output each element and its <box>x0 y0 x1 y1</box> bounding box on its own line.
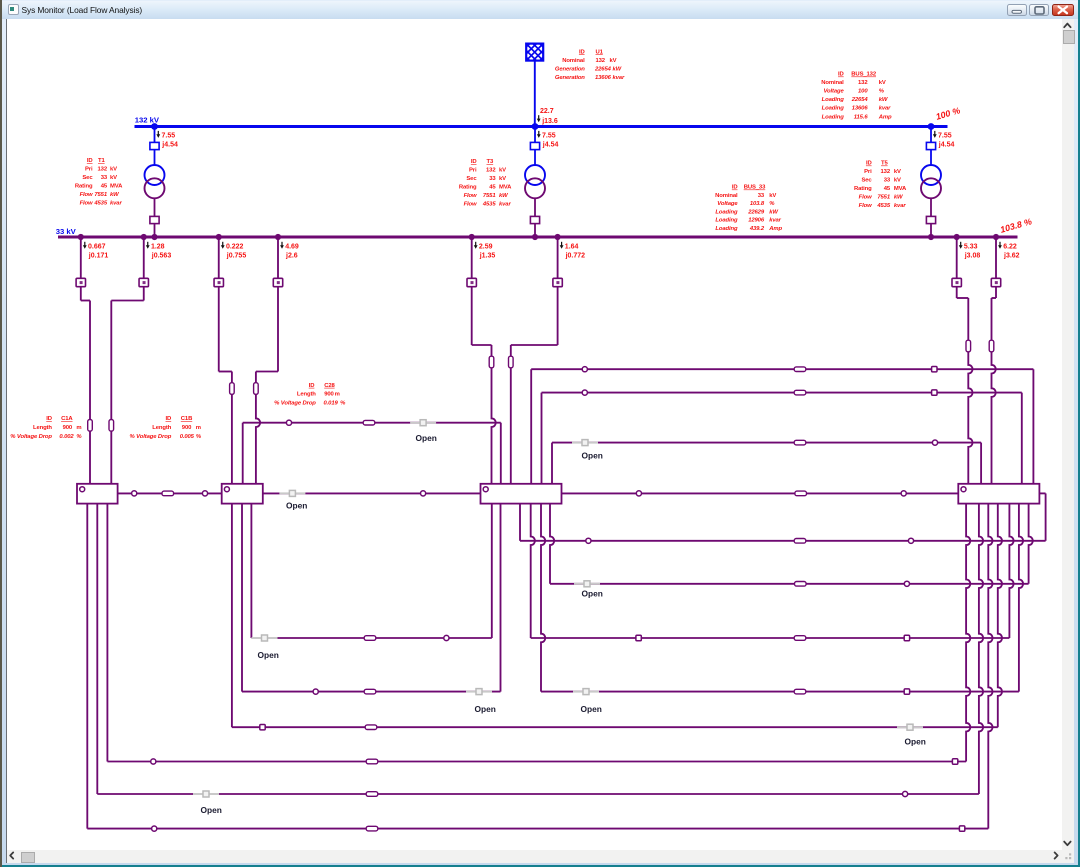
svg-text:Length: Length <box>152 425 171 431</box>
svg-text:m: m <box>76 425 81 431</box>
value label C1A <box>10 416 82 440</box>
svg-text:kW: kW <box>879 97 888 103</box>
cable feeder F8 <box>989 298 995 484</box>
svg-text:Length: Length <box>297 392 316 398</box>
transformer T3 (two-winding) <box>525 165 545 198</box>
node dot BUS_33 at T1 <box>151 234 157 240</box>
flow label feeder F5 <box>474 242 496 260</box>
svg-text:Generation: Generation <box>555 66 585 72</box>
svg-text:BUS_33: BUS_33 <box>744 185 766 191</box>
feeder F4 breaker <box>273 237 282 287</box>
svg-text:4535: 4535 <box>93 201 107 207</box>
cable feeder F6 <box>509 345 514 484</box>
svg-text:Sec: Sec <box>466 176 477 182</box>
svg-text:13606: 13606 <box>595 75 612 81</box>
svg-text:900: 900 <box>63 425 73 431</box>
svg-text:Rating: Rating <box>854 186 872 192</box>
flow label T5 (7.55, j4.54) <box>933 131 955 149</box>
svg-text:kV: kV <box>499 176 506 182</box>
svg-text:Amp: Amp <box>768 226 782 232</box>
open label row D left <box>475 704 496 714</box>
svg-text:kV: kV <box>110 175 117 181</box>
svg-text:Flow: Flow <box>80 192 93 198</box>
value label C28 <box>274 383 346 407</box>
node dot BUS_33 at T3 <box>532 234 538 240</box>
flow label feeder F3 <box>221 242 246 260</box>
busbar substation B <box>222 484 263 504</box>
svg-text:j4.54: j4.54 <box>542 142 559 149</box>
node dot BUS_33 feeder F4 <box>275 234 281 240</box>
svg-text:C1A: C1A <box>61 416 73 422</box>
flow label T3 (7.55, j4.54) <box>537 131 559 149</box>
cable ring H3 (C to D top) with open switch <box>552 440 981 484</box>
svg-text:Nominal: Nominal <box>821 80 844 86</box>
bus BUS_33 (33 kV) <box>58 236 1018 239</box>
wire feeder F3 upper <box>219 287 232 372</box>
open label row E <box>905 737 926 747</box>
svg-text:kvar: kvar <box>499 202 511 208</box>
node dot BUS_33 feeder F7 <box>954 234 960 240</box>
svg-text:ID: ID <box>838 72 844 78</box>
transformer T3 LV breaker and lead <box>530 198 539 237</box>
svg-text:900: 900 <box>182 425 192 431</box>
svg-text:Pri: Pri <box>864 169 872 175</box>
svg-text:Voltage: Voltage <box>717 201 738 207</box>
label 132 kV <box>135 116 160 125</box>
value label T3 <box>459 159 512 208</box>
label 33 kV <box>56 227 77 236</box>
svg-text:Nominal: Nominal <box>562 58 585 64</box>
svg-text:132: 132 <box>881 169 891 175</box>
cable feeder F7 <box>966 298 973 484</box>
transformer T5 LV breaker and lead <box>926 198 935 237</box>
cable row C left (B bottom to C bottom) with open switch <box>251 504 491 641</box>
cable row F (A bottom to D bottom) <box>107 504 970 765</box>
svg-text:kvar: kvar <box>879 106 891 112</box>
svg-text:33 kV: 33 kV <box>56 227 77 236</box>
svg-text:Loading: Loading <box>715 226 738 232</box>
svg-text:Rating: Rating <box>75 184 93 190</box>
svg-text:j0.755: j0.755 <box>226 253 247 260</box>
node dot BUS_132 at U1/T3 <box>532 123 539 130</box>
svg-text:45: 45 <box>101 184 108 190</box>
value label T1 <box>75 158 123 207</box>
svg-text:Loading: Loading <box>822 114 845 120</box>
svg-text:0.005: 0.005 <box>180 434 195 440</box>
wire feeder F6 upper <box>511 287 558 345</box>
generator U1 (utility grid symbol) <box>486 24 584 81</box>
wire feeder F8 upper <box>992 287 997 298</box>
wire feeder F1 upper <box>81 287 90 301</box>
svg-text:C1B: C1B <box>181 416 192 422</box>
svg-text:132: 132 <box>596 58 606 64</box>
cable link B-C with open switch <box>263 490 481 496</box>
svg-text:kvar: kvar <box>613 75 625 81</box>
svg-text:kvar: kvar <box>110 201 122 207</box>
wire U1 to BUS_132 <box>534 61 536 127</box>
cable link C-D <box>562 491 959 496</box>
svg-text:kV: kV <box>879 80 886 86</box>
svg-text:% Voltage Drop: % Voltage Drop <box>130 434 172 440</box>
svg-text:7551: 7551 <box>483 193 496 199</box>
svg-text:22654: 22654 <box>851 97 869 103</box>
svg-text:33: 33 <box>101 175 108 181</box>
cable row E (B bottom to D bottom) with open switch <box>232 504 1002 731</box>
flow label feeder F2 <box>146 242 171 260</box>
svg-text:900: 900 <box>324 392 334 398</box>
wire feeder F4 upper <box>256 287 278 372</box>
svg-text:kvar: kvar <box>769 218 781 224</box>
cable feeder F4 <box>254 372 261 484</box>
feeder F7 breaker <box>952 237 961 287</box>
svg-text:132: 132 <box>98 167 108 173</box>
svg-text:j0.772: j0.772 <box>565 253 586 260</box>
svg-text:Sec: Sec <box>82 175 93 181</box>
flow label U1 (22.7, j13.6) <box>537 108 558 125</box>
cable row A (C bottom to D right loop) <box>520 493 1046 543</box>
bus BUS_132 (132 kV) <box>135 125 948 128</box>
node dot BUS_33 at T5 <box>928 234 934 240</box>
svg-text:4535: 4535 <box>876 203 890 209</box>
svg-text:j0.563: j0.563 <box>151 253 172 260</box>
node dot BUS_33 feeder F8 <box>993 234 999 240</box>
svg-text:Open: Open <box>201 805 222 815</box>
svg-text:kV: kV <box>894 169 901 175</box>
svg-text:% Voltage Drop: % Voltage Drop <box>10 434 52 440</box>
flow label feeder F7 <box>959 242 981 260</box>
open label H3 <box>582 451 603 461</box>
feeder F6 breaker <box>553 237 562 287</box>
node dot BUS_33 feeder F5 <box>469 234 475 240</box>
svg-text:Generation: Generation <box>555 75 585 81</box>
feeder F3 breaker <box>214 237 223 287</box>
svg-text:Loading: Loading <box>715 209 738 215</box>
svg-text:0.002: 0.002 <box>59 434 74 440</box>
svg-text:Loading: Loading <box>715 218 738 224</box>
svg-text:T3: T3 <box>487 159 494 165</box>
svg-text:j4.54: j4.54 <box>161 142 178 149</box>
svg-text:j0.171: j0.171 <box>88 253 109 260</box>
open label C28 <box>416 433 437 443</box>
svg-text:Amp: Amp <box>878 114 892 120</box>
svg-text:1.64: 1.64 <box>565 243 579 250</box>
svg-text:j4.54: j4.54 <box>938 142 955 149</box>
node dot BUS_132 at T1 <box>151 123 158 130</box>
svg-text:Open: Open <box>475 704 496 714</box>
svg-text:Open: Open <box>286 501 307 511</box>
svg-text:j1.35: j1.35 <box>479 253 496 260</box>
svg-text:m: m <box>196 425 201 431</box>
value label BUS_33 <box>715 185 782 233</box>
svg-text:1.28: 1.28 <box>151 243 165 250</box>
svg-text:ID: ID <box>87 158 93 164</box>
svg-text:7.55: 7.55 <box>938 133 952 140</box>
svg-text:Open: Open <box>582 451 603 461</box>
svg-text:BUS_132: BUS_132 <box>851 72 877 78</box>
open label row G <box>201 805 222 815</box>
svg-text:m: m <box>335 392 340 398</box>
svg-text:6.22: 6.22 <box>1003 243 1017 250</box>
svg-text:MVA: MVA <box>894 186 907 192</box>
value label C1B <box>130 416 202 440</box>
svg-text:103.8 %: 103.8 % <box>999 216 1033 235</box>
svg-text:MVA: MVA <box>110 184 123 190</box>
cable link A-B <box>118 491 222 496</box>
svg-text:33: 33 <box>884 178 891 184</box>
transformer T1 (two-winding) <box>145 165 165 198</box>
svg-text:45: 45 <box>489 185 496 191</box>
cable feeder F3 <box>230 372 235 484</box>
cable row D left (B bottom to C bottom) with open switch <box>242 504 501 695</box>
cable ring H1 (C to D top) <box>531 367 1033 484</box>
svg-text:j3.62: j3.62 <box>1003 253 1020 260</box>
svg-text:Open: Open <box>905 737 926 747</box>
open label row D right <box>581 704 602 714</box>
open label link B-C <box>286 501 307 511</box>
svg-text:%: % <box>76 434 82 440</box>
svg-text:ID: ID <box>46 416 52 422</box>
svg-text:33: 33 <box>489 176 496 182</box>
cable row B (C bottom to D bottom) with open switch <box>550 504 1033 587</box>
svg-text:4535: 4535 <box>482 202 496 208</box>
cable feeder F5 <box>489 345 496 484</box>
svg-text:Sec: Sec <box>861 178 872 184</box>
svg-text:4.69: 4.69 <box>285 243 299 250</box>
svg-text:ID: ID <box>732 185 738 191</box>
svg-text:C28: C28 <box>324 383 335 389</box>
svg-text:Open: Open <box>258 650 279 660</box>
svg-text:kW: kW <box>499 193 508 199</box>
svg-text:U1: U1 <box>596 49 604 55</box>
cable row G (A bottom to D bottom) with open switch <box>97 504 983 797</box>
svg-text:Length: Length <box>33 425 52 431</box>
svg-text:100 %: 100 % <box>935 105 962 122</box>
svg-text:100: 100 <box>858 89 868 95</box>
feeder F2 breaker <box>139 237 148 287</box>
svg-text:%: % <box>196 434 202 440</box>
svg-text:Open: Open <box>581 704 602 714</box>
flow label feeder F1 <box>83 242 108 260</box>
wire feeder F5 upper <box>472 287 492 345</box>
svg-text:%: % <box>340 400 346 406</box>
cable row C right (C bottom to D bottom) <box>531 504 1014 641</box>
svg-text:kW: kW <box>110 192 119 198</box>
flow label T1 (7.55, j4.54) <box>156 131 178 149</box>
svg-text:% Voltage Drop: % Voltage Drop <box>274 400 316 406</box>
svg-text:kV: kV <box>499 168 506 174</box>
feeder F1 breaker <box>76 237 85 287</box>
svg-text:45: 45 <box>884 186 891 192</box>
svg-text:kvar: kvar <box>894 203 906 209</box>
voltage annotation 103.8 % <box>999 216 1033 235</box>
busbar substation D <box>958 484 1039 504</box>
svg-text:Flow: Flow <box>859 203 872 209</box>
node dot BUS_33 feeder F3 <box>216 234 222 240</box>
cable feeder F2 <box>109 301 114 484</box>
cable C28 (B2 to C) with open point <box>243 420 501 484</box>
value label T5 <box>854 161 907 210</box>
svg-text:0.667: 0.667 <box>88 243 106 250</box>
value label BUS_132 <box>821 72 892 121</box>
svg-text:0.222: 0.222 <box>226 243 244 250</box>
svg-text:Loading: Loading <box>822 97 845 103</box>
svg-text:Nominal: Nominal <box>715 193 738 199</box>
node dot BUS_33 feeder F6 <box>555 234 561 240</box>
busbar substation C <box>481 484 562 504</box>
svg-text:Open: Open <box>582 589 603 599</box>
cable row D right (C bottom to D bottom) with open switch <box>541 504 1023 695</box>
svg-text:132: 132 <box>486 168 496 174</box>
svg-text:kW: kW <box>769 209 778 215</box>
transformer T1 LV breaker and lead <box>150 198 159 237</box>
svg-text:MVA: MVA <box>499 185 512 191</box>
cable row H (A bottom to D bottom) <box>87 504 992 832</box>
feeder F5 breaker <box>467 237 476 287</box>
svg-text:103.8: 103.8 <box>750 201 765 207</box>
node dot BUS_132 at T5 <box>928 123 935 130</box>
svg-text:Pri: Pri <box>469 168 477 174</box>
svg-text:kW: kW <box>894 195 903 201</box>
node dot BUS_33 feeder F1 <box>78 234 84 240</box>
svg-text:33: 33 <box>758 193 765 199</box>
svg-text:115.6: 115.6 <box>854 114 869 120</box>
svg-text:ID: ID <box>579 49 585 55</box>
svg-text:Flow: Flow <box>80 201 93 207</box>
svg-text:j2.6: j2.6 <box>285 253 298 260</box>
svg-text:ID: ID <box>471 159 477 165</box>
svg-text:T1: T1 <box>98 158 105 164</box>
cable link D right loop <box>1039 492 1045 494</box>
svg-text:kV: kV <box>110 167 117 173</box>
transformer T1 HV lead and breaker <box>150 127 159 166</box>
open label row C left <box>258 650 279 660</box>
flow label feeder F4 <box>280 242 299 260</box>
flow label feeder F6 <box>560 242 585 260</box>
open label row B <box>582 589 603 599</box>
svg-text:kV: kV <box>894 178 901 184</box>
svg-text:Pri: Pri <box>85 167 93 173</box>
svg-text:7551: 7551 <box>877 195 890 201</box>
value label U1 <box>555 49 625 81</box>
svg-text:Flow: Flow <box>859 195 872 201</box>
svg-text:Flow: Flow <box>464 202 477 208</box>
svg-text:kV: kV <box>769 193 776 199</box>
svg-text:Open: Open <box>416 433 437 443</box>
transformer T5 (two-winding) <box>921 165 941 198</box>
svg-text:22629: 22629 <box>747 209 765 215</box>
voltage annotation 100 % <box>935 105 962 122</box>
svg-text:22.7: 22.7 <box>540 108 554 115</box>
svg-text:ID: ID <box>866 161 872 167</box>
transformer T5 HV lead and breaker <box>926 127 935 166</box>
svg-text:kV: kV <box>610 58 617 64</box>
svg-text:ID: ID <box>309 383 315 389</box>
svg-text:j3.08: j3.08 <box>964 253 981 260</box>
feeder F8 breaker <box>991 237 1000 287</box>
svg-text:7.55: 7.55 <box>542 133 556 140</box>
node dot BUS_33 feeder F2 <box>141 234 147 240</box>
svg-text:22654: 22654 <box>594 66 612 72</box>
svg-text:Voltage: Voltage <box>823 89 844 95</box>
svg-text:439.2: 439.2 <box>749 226 765 232</box>
svg-text:132 kV: 132 kV <box>135 116 160 125</box>
svg-text:Rating: Rating <box>459 185 477 191</box>
svg-text:ID: ID <box>166 416 172 422</box>
flow label feeder F8 <box>998 242 1020 260</box>
svg-text:2.59: 2.59 <box>479 243 493 250</box>
svg-text:12906: 12906 <box>748 218 765 224</box>
svg-text:0.019: 0.019 <box>324 400 339 406</box>
svg-text:%: % <box>769 201 775 207</box>
svg-text:Flow: Flow <box>464 193 477 199</box>
svg-text:13606: 13606 <box>852 106 869 112</box>
svg-text:5.33: 5.33 <box>964 243 978 250</box>
wire feeder F7 upper <box>957 287 969 298</box>
cable ring H2 (C to D top) <box>542 390 1022 484</box>
svg-text:Loading: Loading <box>822 106 845 112</box>
svg-text:j13.6: j13.6 <box>541 118 558 125</box>
busbar substation A <box>77 484 118 504</box>
svg-text:T5: T5 <box>881 161 888 167</box>
transformer T3 HV lead and breaker <box>530 127 539 166</box>
svg-text:132: 132 <box>858 80 868 86</box>
cable feeder F1 <box>88 301 93 484</box>
wire feeder F2 upper <box>111 287 143 301</box>
svg-text:%: % <box>879 89 885 95</box>
svg-text:7.55: 7.55 <box>162 133 176 140</box>
svg-text:kW: kW <box>613 66 622 72</box>
svg-text:7551: 7551 <box>94 192 107 198</box>
